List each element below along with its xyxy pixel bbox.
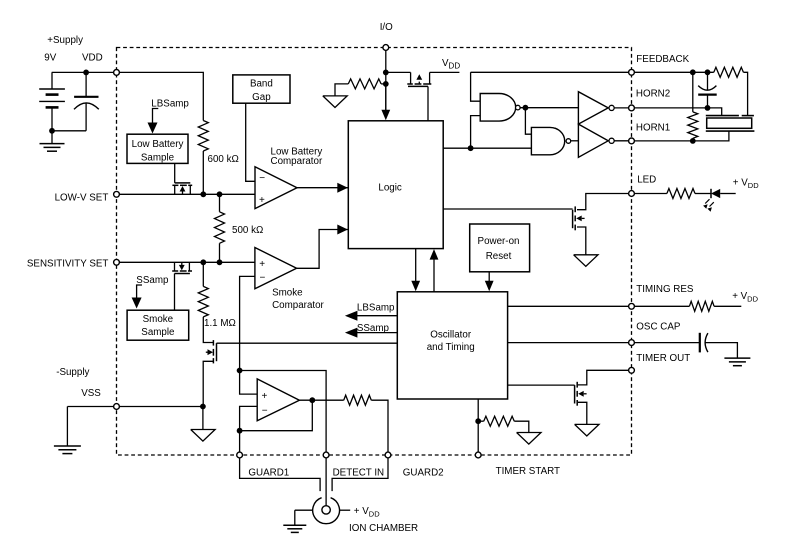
svg-text:Low Battery: Low Battery [132, 139, 184, 150]
svg-text:+: + [259, 195, 265, 206]
svg-text:Oscillator: Oscillator [430, 330, 472, 341]
svg-text:Reset: Reset [486, 251, 512, 262]
svg-text:500 kΩ: 500 kΩ [232, 225, 263, 236]
svg-text:OSC CAP: OSC CAP [636, 322, 681, 333]
svg-text:VDD: VDD [82, 53, 103, 64]
svg-text:−: − [259, 173, 265, 184]
svg-text:Sample: Sample [141, 152, 175, 163]
svg-text:ION CHAMBER: ION CHAMBER [349, 523, 418, 534]
svg-text:Comparator: Comparator [272, 300, 324, 311]
svg-text:HORN1: HORN1 [636, 122, 670, 133]
svg-text:Comparator: Comparator [271, 156, 323, 167]
svg-text:Power-on: Power-on [478, 236, 520, 247]
svg-text:TIMER START: TIMER START [496, 466, 560, 477]
svg-text:Smoke: Smoke [272, 287, 303, 298]
svg-text:+: + [262, 391, 268, 402]
svg-text:LED: LED [637, 174, 656, 185]
svg-text:LBSamp: LBSamp [151, 99, 189, 110]
svg-text:LOW-V SET: LOW-V SET [55, 193, 109, 204]
svg-text:Gap: Gap [252, 92, 271, 103]
svg-text:GUARD2: GUARD2 [403, 468, 444, 479]
svg-text:Band: Band [250, 78, 273, 89]
svg-text:SSamp: SSamp [136, 275, 169, 286]
svg-text:600 kΩ: 600 kΩ [208, 154, 239, 165]
svg-text:9V: 9V [44, 53, 56, 64]
svg-text:+: + [259, 259, 265, 270]
svg-text:DETECT IN: DETECT IN [333, 468, 385, 479]
svg-text:Logic: Logic [378, 182, 402, 193]
svg-text:−: − [262, 406, 268, 417]
svg-text:and Timing: and Timing [427, 342, 475, 353]
svg-text:Sample: Sample [141, 327, 175, 338]
svg-text:I/O: I/O [380, 22, 393, 33]
svg-text:GUARD1: GUARD1 [248, 468, 289, 479]
svg-text:1.1 MΩ: 1.1 MΩ [204, 318, 236, 329]
svg-text:+Supply: +Supply [47, 35, 83, 46]
svg-text:TIMER OUT: TIMER OUT [636, 353, 690, 364]
svg-text:HORN2: HORN2 [636, 89, 670, 100]
svg-text:SENSITIVITY SET: SENSITIVITY SET [27, 259, 108, 270]
svg-text:LBSamp: LBSamp [357, 303, 395, 314]
svg-text:VSS: VSS [81, 388, 101, 399]
svg-text:-Supply: -Supply [56, 367, 89, 378]
svg-text:Smoke: Smoke [143, 314, 174, 325]
svg-text:FEEDBACK: FEEDBACK [636, 54, 689, 65]
svg-text:SSamp: SSamp [357, 323, 390, 334]
svg-text:TIMING RES: TIMING RES [636, 284, 694, 295]
svg-text:−: − [260, 273, 266, 284]
